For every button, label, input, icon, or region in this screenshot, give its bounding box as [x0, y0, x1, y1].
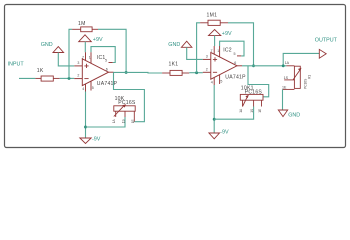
svg-text:5: 5 — [92, 86, 94, 90]
wire GND2 to stage2 pin3 — [187, 47, 203, 59]
supply -9V stage1 symbol — [80, 138, 91, 144]
wire output stage2 — [242, 65, 286, 67]
svg-text:PC16S: PC16S — [303, 79, 307, 89]
svg-text:1: 1 — [89, 56, 91, 60]
svg-text:1S: 1S — [284, 76, 289, 80]
junction node stage1 input — [68, 77, 71, 80]
svg-text:5: 5 — [234, 52, 236, 56]
ground GND1 symbol — [53, 47, 64, 53]
wire GND1 to pin3 — [58, 53, 74, 66]
svg-text:GND: GND — [168, 42, 180, 48]
svg-text:6: 6 — [234, 61, 236, 65]
svg-text:UA741P: UA741P — [225, 74, 246, 80]
svg-text:3: 3 — [206, 55, 208, 59]
wire input — [19, 77, 35, 79]
svg-text:1A: 1A — [285, 61, 290, 65]
svg-text:1E: 1E — [258, 109, 262, 113]
output flag arrow — [319, 49, 326, 58]
svg-text:1S: 1S — [250, 109, 254, 113]
svg-text:4: 4 — [82, 87, 84, 91]
wire 1M1 to output node stage2 — [228, 23, 254, 66]
potentiometer 10K1 PC16S stage2 — [239, 86, 263, 113]
svg-text:1K1: 1K1 — [169, 62, 179, 68]
junction output node stage2 — [252, 64, 255, 67]
svg-text:1A: 1A — [239, 108, 243, 113]
supply +9V stage2 symbol — [209, 30, 221, 36]
svg-text:2: 2 — [77, 74, 79, 78]
resistor 1M — [72, 27, 98, 32]
junction output node stage1 — [125, 71, 128, 74]
svg-text:R1: R1 — [308, 75, 312, 79]
svg-text:INPUT: INPUT — [8, 62, 25, 68]
resistor 1K1 — [162, 70, 189, 75]
wire 1K1 to stage2 pin2 — [189, 72, 203, 74]
svg-text:7: 7 — [211, 49, 213, 53]
svg-text:1: 1 — [217, 49, 219, 53]
wire +9V2 pin to top stub — [214, 36, 216, 46]
wire -9V node to pot2 wiper — [214, 107, 253, 120]
ground GND2 symbol — [181, 41, 192, 47]
wire output stage1 to 1K1 — [114, 71, 163, 74]
supply +9V stage1 symbol — [79, 35, 92, 42]
border frame — [5, 5, 346, 148]
svg-text:PC16S: PC16S — [118, 100, 136, 106]
svg-text:1M: 1M — [78, 21, 86, 27]
wire 1K to pin 2 junction — [60, 77, 75, 79]
svg-text:4: 4 — [211, 80, 213, 84]
wire output drop to pot1 — [114, 72, 145, 121]
svg-text:+9V: +9V — [93, 37, 103, 43]
potentiometer 10K PC16S stage1 — [112, 96, 136, 123]
svg-text:UA741P: UA741P — [97, 81, 118, 87]
svg-text:IC1: IC1 — [97, 55, 106, 61]
svg-text:GND: GND — [41, 42, 53, 48]
svg-text:-9V: -9V — [92, 136, 101, 142]
junction -9V node stage1 — [84, 126, 87, 129]
svg-text:6: 6 — [106, 67, 108, 71]
junction node output pot — [282, 64, 285, 67]
potentiometer R1 PC16S output — [282, 61, 312, 90]
svg-text:1A: 1A — [112, 119, 116, 124]
wire 1M to output node stage1 — [98, 29, 126, 72]
svg-text:2: 2 — [206, 67, 208, 71]
op-amp IC1 — [74, 52, 113, 91]
svg-text:+9V: +9V — [222, 31, 232, 37]
junction -9V node stage2 — [213, 118, 216, 121]
svg-text:IC2: IC2 — [223, 47, 232, 53]
wire output riser to flag — [283, 53, 319, 65]
pin number labels IC1 — [77, 56, 107, 91]
svg-text:OUTPUT: OUTPUT — [315, 38, 338, 44]
wire feedback riser stage1 — [69, 29, 72, 78]
wire +9V1 pin to top stub — [84, 42, 86, 53]
resistor 1M1 — [200, 20, 228, 25]
svg-text:1E: 1E — [131, 119, 135, 123]
svg-text:1S: 1S — [122, 119, 126, 123]
wire bridge pin1 to pin5 stage1 — [91, 47, 115, 63]
wire pin4 riser to -9V stage1 — [85, 92, 87, 139]
svg-text:3: 3 — [77, 61, 79, 65]
resistor 1K — [35, 76, 59, 81]
svg-text:GND: GND — [288, 112, 300, 118]
supply -9V stage2 symbol — [209, 133, 220, 139]
wire pot E to GND3 — [282, 89, 284, 110]
ground GND3 symbol — [278, 110, 287, 117]
op-amp IC2 — [203, 46, 242, 85]
wire pin4 riser to -9V stage2 — [213, 85, 215, 133]
svg-text:-9V: -9V — [220, 129, 229, 135]
wire bridge pin1 to pin5 stage2 — [220, 41, 244, 56]
wire feedback riser stage2 — [197, 23, 201, 73]
pin number labels IC2 — [206, 49, 237, 84]
svg-text:1M1: 1M1 — [207, 12, 218, 18]
svg-text:1K: 1K — [37, 68, 44, 74]
wire -9V node to pot1 wiper — [86, 117, 126, 127]
svg-text:5: 5 — [220, 79, 222, 83]
svg-text:7: 7 — [82, 56, 84, 60]
junction node stage2 input — [195, 71, 198, 74]
svg-text:1E: 1E — [282, 85, 287, 89]
svg-text:PC16S: PC16S — [245, 90, 263, 96]
wire output drop to pot2 — [248, 66, 269, 97]
